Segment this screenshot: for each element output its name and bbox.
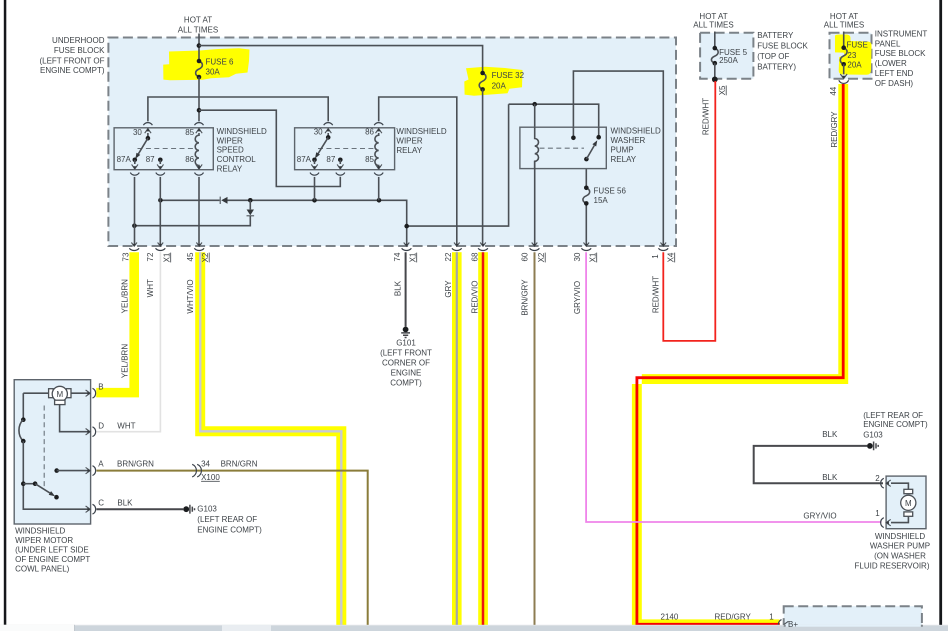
svg-text:GRY/VIO: GRY/VIO bbox=[803, 511, 836, 520]
relay1 pin 86 exit arrow bbox=[196, 164, 202, 169]
svg-text:WIPER: WIPER bbox=[396, 136, 422, 145]
svg-text:BRN/GRY: BRN/GRY bbox=[521, 279, 530, 316]
svg-text:WINDSHIELD: WINDSHIELD bbox=[15, 527, 65, 536]
svg-text:BATTERY: BATTERY bbox=[757, 31, 794, 40]
svg-text:FUSE 56: FUSE 56 bbox=[594, 186, 627, 195]
wire GRY core pin 22 to bottom bbox=[456, 252, 458, 626]
diode D1 on y200 line (cathode left) bbox=[219, 197, 221, 204]
svg-text:ENGINE COMPT): ENGINE COMPT) bbox=[197, 525, 262, 534]
svg-text:87A: 87A bbox=[117, 155, 132, 164]
washer relay switch contacts and blade bbox=[571, 136, 576, 141]
svg-text:X2: X2 bbox=[201, 252, 210, 262]
washer pump pin 1 arrow and arc bbox=[886, 519, 891, 525]
wire relay1 86 to pin 45 bbox=[198, 177, 200, 245]
wire RED/VIO core pin 68 to bottom bbox=[482, 252, 485, 626]
svg-text:RED/GRY: RED/GRY bbox=[715, 612, 752, 621]
svg-text:BLK: BLK bbox=[822, 430, 838, 439]
wire RED/GRY core trunk bbox=[637, 84, 843, 624]
relay2 pin 86 terminal arrow bbox=[376, 129, 382, 134]
svg-text:B+: B+ bbox=[788, 620, 798, 629]
wire fuse 32 to pin 68 bbox=[482, 89, 484, 245]
wire relay1 87A to pin 73 bbox=[134, 177, 136, 245]
relay2 bottom connector arcs bbox=[310, 173, 319, 176]
svg-text:FUSE BLOCK: FUSE BLOCK bbox=[54, 46, 105, 55]
svg-text:BLK: BLK bbox=[822, 473, 838, 482]
underhood border pin 60 arrow and arc bbox=[532, 243, 538, 247]
svg-text:FLUID RESERVOIR): FLUID RESERVOIR) bbox=[855, 561, 930, 570]
svg-text:C: C bbox=[98, 499, 104, 508]
wire fuse 6 to relay 1 pin 85 bbox=[198, 77, 200, 121]
svg-text:GRY/VIO: GRY/VIO bbox=[573, 281, 582, 314]
node y200 diode branch bbox=[248, 198, 253, 203]
svg-text:X1: X1 bbox=[588, 252, 597, 262]
svg-text:2: 2 bbox=[875, 474, 880, 483]
svg-text:WINDSHIELD: WINDSHIELD bbox=[875, 532, 925, 541]
wire BLK pin 74 to G101 bbox=[405, 252, 407, 327]
svg-text:BLK: BLK bbox=[117, 499, 133, 508]
svg-text:86: 86 bbox=[365, 128, 374, 137]
windshield washer pump relay U3 box bbox=[520, 127, 606, 168]
motor park switch pivot and blade bbox=[21, 481, 26, 486]
svg-text:B: B bbox=[98, 383, 103, 392]
relay1 coil 85-86 bbox=[195, 133, 199, 169]
svg-text:250A: 250A bbox=[719, 56, 738, 65]
svg-text:87: 87 bbox=[326, 155, 335, 164]
instrument fuse block feed wire bbox=[843, 32, 845, 48]
svg-text:FUSE 32: FUSE 32 bbox=[492, 71, 525, 80]
underhood border pin 72 arrow and arc bbox=[158, 243, 164, 247]
svg-text:OF ENGINE COMPT: OF ENGINE COMPT bbox=[15, 555, 90, 564]
washer pump motor symbol bbox=[891, 483, 908, 522]
svg-text:FUSE BLOCK: FUSE BLOCK bbox=[875, 49, 926, 58]
windshield wiper relay U2 box bbox=[295, 128, 395, 170]
relay2 pin 85 exit arrow bbox=[376, 164, 382, 169]
svg-text:BATTERY): BATTERY) bbox=[757, 62, 796, 71]
svg-text:CORNER OF: CORNER OF bbox=[382, 359, 430, 368]
svg-text:YEL/BRN: YEL/BRN bbox=[121, 279, 130, 313]
wire HOT AT ALL TIMES feed to fuse 6 bbox=[198, 34, 200, 62]
svg-text:FUSE: FUSE bbox=[847, 41, 868, 50]
svg-text:74: 74 bbox=[393, 252, 402, 261]
B+ connector entry arc and arrow bbox=[778, 620, 781, 630]
highlight band RED/GRY trunk from instrument fuse block to B+ bbox=[632, 84, 848, 629]
svg-text:YEL/BRN: YEL/BRN bbox=[120, 344, 129, 378]
svg-text:BRN/GRN: BRN/GRN bbox=[117, 460, 154, 469]
relay1 top connector arcs bbox=[143, 123, 152, 126]
relay2 dashed midline bbox=[318, 148, 377, 150]
highlight blob fuse 23 bbox=[835, 35, 872, 75]
svg-text:WHT: WHT bbox=[117, 422, 135, 431]
motor park switch contact A bbox=[54, 468, 59, 473]
relay1 pin 85 terminal arrow bbox=[196, 129, 202, 134]
svg-text:68: 68 bbox=[471, 252, 480, 261]
svg-text:RELAY: RELAY bbox=[396, 146, 422, 155]
svg-text:87A: 87A bbox=[297, 155, 312, 164]
svg-text:1: 1 bbox=[875, 509, 880, 518]
wire washer relay switch feed to pin 1 (y=71) bbox=[573, 71, 663, 245]
svg-text:ALL TIMES: ALL TIMES bbox=[178, 26, 218, 35]
highlight band YEL/BRN wire pin 73 to motor B bbox=[96, 252, 139, 397]
motor pin A exit arrow and arc bbox=[86, 467, 91, 473]
svg-text:1: 1 bbox=[769, 612, 774, 621]
wire washer coil to pin 60 bbox=[534, 161, 536, 245]
svg-text:30: 30 bbox=[133, 128, 142, 137]
wire network y200 relay1-87 to pin74 bbox=[160, 200, 406, 245]
wire GRY/VIO pin 30 to washer pump pin 1 bbox=[586, 252, 881, 522]
fuse 23 20A bbox=[840, 48, 847, 65]
svg-text:60: 60 bbox=[521, 252, 530, 261]
svg-text:G103: G103 bbox=[197, 505, 217, 514]
relay2 top connector arcs bbox=[324, 123, 333, 126]
underhood border pin 68 arrow and arc bbox=[480, 243, 486, 247]
windshield wiper speed control relay U1 box bbox=[114, 128, 213, 170]
wire junction y110 to windshield wiper relay pin 87 bbox=[199, 110, 340, 186]
battery fuse block box bbox=[700, 33, 753, 79]
svg-text:WINDSHIELD: WINDSHIELD bbox=[396, 127, 446, 136]
battery fuse block feed wire bbox=[714, 32, 716, 49]
relay1 switch blade 30 to 87A bbox=[146, 136, 151, 141]
wire RED/WHT pin 1 to battery fuse block bbox=[663, 81, 715, 341]
svg-text:1: 1 bbox=[651, 254, 660, 259]
wire y226 pin74 junction to washer coil riser bbox=[407, 104, 509, 226]
svg-text:GRY: GRY bbox=[444, 280, 453, 298]
wire fuse 5 to X5 node bbox=[714, 63, 716, 79]
svg-text:FUSE BLOCK: FUSE BLOCK bbox=[757, 41, 808, 50]
svg-text:FUSE 6: FUSE 6 bbox=[206, 57, 235, 66]
ground G101 bbox=[403, 327, 409, 333]
svg-text:RED/WHT: RED/WHT bbox=[651, 276, 660, 313]
highlight band GRY wire pin 22 bbox=[452, 252, 462, 626]
svg-text:73: 73 bbox=[122, 252, 131, 261]
motor pin D exit arrow and arc bbox=[86, 429, 91, 435]
underhood border pin 22 arrow and arc bbox=[454, 243, 460, 247]
washer relay internal risers bbox=[573, 127, 598, 138]
B+ box fill patch above bar bbox=[785, 625, 921, 627]
fuse 56 15A bbox=[583, 159, 590, 245]
svg-text:(UNDER LEFT SIDE: (UNDER LEFT SIDE bbox=[15, 546, 89, 555]
washer relay coil bbox=[535, 127, 539, 168]
svg-text:RED/GRY: RED/GRY bbox=[830, 111, 839, 148]
underhood fuse block box bbox=[108, 38, 676, 247]
relay1 bottom connector arcs bbox=[130, 173, 139, 176]
svg-text:WIPER MOTOR: WIPER MOTOR bbox=[15, 536, 73, 545]
svg-text:ALL TIMES: ALL TIMES bbox=[824, 21, 864, 30]
wire relay1 pin30 to relay2 pin30 (y=97) bbox=[148, 97, 328, 121]
svg-text:86: 86 bbox=[185, 155, 194, 164]
svg-text:WINDSHIELD: WINDSHIELD bbox=[611, 127, 661, 136]
svg-text:30: 30 bbox=[314, 128, 323, 137]
relay1 pin 87A exit arrow bbox=[134, 160, 136, 164]
svg-text:X2: X2 bbox=[537, 252, 546, 262]
washer pump pin 2 arrow and arc bbox=[886, 480, 891, 486]
wire y45 junction to fuse 32 bbox=[199, 46, 483, 73]
svg-text:23: 23 bbox=[847, 51, 856, 60]
highlight band WHT/VIO wire pin 45 bbox=[195, 252, 346, 626]
underhood border pin 74 arrow and arc bbox=[404, 243, 410, 247]
node pin74 junction y226 bbox=[404, 224, 409, 229]
highlight band RED/VIO wire pin 68 bbox=[478, 252, 488, 626]
relay2 switch blade 30 to 87A bbox=[326, 135, 331, 140]
svg-text:(LOWER: (LOWER bbox=[875, 59, 907, 68]
svg-text:PANEL: PANEL bbox=[875, 39, 901, 48]
svg-text:WHT/VIO: WHT/VIO bbox=[186, 279, 195, 313]
instrument panel fuse block box bbox=[830, 33, 872, 79]
svg-text:RELAY: RELAY bbox=[611, 155, 637, 164]
right page edge line bbox=[939, 0, 942, 626]
node y200 relay2-85 bbox=[377, 198, 382, 203]
svg-text:(LEFT FRONT OF: (LEFT FRONT OF bbox=[39, 56, 104, 65]
svg-text:WASHER: WASHER bbox=[611, 136, 646, 145]
node y200 relay2-87A bbox=[312, 198, 317, 203]
relay1 pin 87 contact and exit arrow bbox=[158, 158, 163, 163]
node y225.7 on relay1-87A wire bbox=[132, 223, 137, 228]
wire washer coil riser into box bbox=[534, 104, 536, 138]
svg-text:(ON WASHER: (ON WASHER bbox=[874, 552, 926, 561]
wire WHT/VIO core pin 45 to bottom bbox=[200, 252, 341, 626]
svg-text:G103: G103 bbox=[863, 430, 883, 439]
svg-text:COMPT): COMPT) bbox=[390, 378, 422, 387]
relay2 pin 30 terminal arrow bbox=[327, 133, 329, 137]
fuse 5 250A bbox=[711, 48, 718, 63]
svg-text:ENGINE: ENGINE bbox=[391, 369, 422, 378]
svg-text:X100: X100 bbox=[201, 473, 220, 482]
svg-text:WINDSHIELD: WINDSHIELD bbox=[217, 127, 267, 136]
svg-text:X1: X1 bbox=[162, 252, 171, 262]
wire relay2 85 to y200 bbox=[378, 177, 380, 200]
relay1 pin 30 terminal arrow bbox=[147, 133, 149, 138]
connector X100 arcs bbox=[192, 464, 196, 477]
motor linkage dashed line bbox=[43, 406, 45, 490]
highlight blob fuse 32 bbox=[464, 67, 522, 96]
relay1 dashed midline bbox=[138, 148, 197, 150]
svg-text:A: A bbox=[98, 460, 104, 469]
bottom scrollbar bar bbox=[0, 626, 948, 631]
wire BLK motor C to G103 bbox=[96, 508, 183, 510]
left page edge line bbox=[4, 0, 7, 626]
svg-text:RED/WHT: RED/WHT bbox=[701, 98, 710, 135]
svg-text:OF DASH): OF DASH) bbox=[875, 79, 914, 88]
svg-text:ALL TIMES: ALL TIMES bbox=[693, 21, 733, 30]
washer relay dashed midline bbox=[540, 147, 585, 149]
wire washer relay coil feed line (y=104.2) bbox=[509, 104, 599, 137]
svg-text:15A: 15A bbox=[594, 196, 609, 205]
relay2 coil 86-85 bbox=[375, 133, 379, 169]
svg-text:WASHER PUMP: WASHER PUMP bbox=[870, 542, 930, 551]
node y200 relay1-87 bbox=[158, 198, 163, 203]
wire BLK washer pump pin 2 to G103 bbox=[754, 446, 883, 483]
node X5 battery output bbox=[712, 77, 718, 83]
motor internal wire to pin D bbox=[60, 405, 88, 432]
svg-text:M: M bbox=[56, 390, 63, 399]
svg-text:LEFT END: LEFT END bbox=[875, 69, 914, 78]
fuse 6 30A bbox=[196, 61, 203, 77]
underhood border pin 45 arrow and arc bbox=[196, 243, 202, 247]
motor M1 symbol bbox=[23, 392, 87, 394]
svg-text:(LEFT REAR OF: (LEFT REAR OF bbox=[197, 515, 257, 524]
svg-text:X5: X5 bbox=[718, 85, 727, 95]
relay2 pin 87A exit arrow bbox=[314, 160, 316, 164]
diode D2 branch down from y200 to y225.7 bbox=[134, 200, 250, 225]
svg-text:22: 22 bbox=[444, 252, 453, 261]
svg-text:87: 87 bbox=[146, 155, 155, 164]
svg-text:INSTRUMENT: INSTRUMENT bbox=[875, 30, 928, 39]
svg-text:D: D bbox=[98, 422, 104, 431]
svg-text:(TOP OF: (TOP OF bbox=[757, 52, 789, 61]
node washer coil junction bbox=[532, 102, 537, 107]
node junction below HOT AT (y=45.6) bbox=[197, 43, 202, 48]
B+ connector box bbox=[784, 606, 922, 631]
svg-text:30A: 30A bbox=[206, 67, 221, 76]
svg-text:ENGINE COMPT): ENGINE COMPT) bbox=[863, 420, 928, 429]
svg-text:UNDERHOOD: UNDERHOOD bbox=[52, 36, 105, 45]
svg-text:HOT AT: HOT AT bbox=[184, 15, 212, 24]
underhood border pin 73 arrow and arc bbox=[131, 243, 137, 247]
svg-text:X1: X1 bbox=[408, 252, 417, 262]
ground G103 right bbox=[867, 443, 873, 449]
svg-text:SPEED: SPEED bbox=[217, 146, 244, 155]
fuse 32 20A bbox=[479, 73, 486, 89]
highlight blob fuse 6 bbox=[163, 48, 249, 80]
svg-text:G101: G101 bbox=[396, 338, 416, 347]
svg-text:M: M bbox=[905, 499, 912, 508]
motor pin B exit arrow and arc bbox=[86, 390, 91, 396]
svg-text:2140: 2140 bbox=[661, 612, 679, 621]
svg-text:COWL PANEL): COWL PANEL) bbox=[15, 565, 70, 574]
svg-text:85: 85 bbox=[185, 128, 194, 137]
svg-text:X4: X4 bbox=[666, 252, 675, 262]
svg-text:ENGINE COMPT): ENGINE COMPT) bbox=[40, 66, 105, 75]
svg-text:85: 85 bbox=[365, 155, 374, 164]
svg-text:30: 30 bbox=[573, 252, 582, 261]
svg-text:(LEFT FRONT: (LEFT FRONT bbox=[380, 349, 432, 358]
svg-text:BRN/GRN: BRN/GRN bbox=[221, 459, 258, 468]
svg-text:45: 45 bbox=[186, 252, 195, 261]
svg-text:20A: 20A bbox=[847, 60, 862, 69]
motor park switch left wire with cam arc bbox=[22, 393, 24, 420]
underhood border pin 1 arrow and arc bbox=[661, 243, 667, 247]
ground G103 left bbox=[183, 506, 189, 512]
wire BRN/GRN motor A to X100 and bottom bbox=[96, 471, 367, 626]
instrument fuse block pin 44 arrow and arc bbox=[843, 64, 845, 74]
underhood border pin 30 arrow and arc bbox=[584, 243, 590, 247]
svg-text:44: 44 bbox=[829, 86, 838, 95]
svg-text:34: 34 bbox=[201, 459, 210, 468]
svg-text:BLK: BLK bbox=[393, 280, 402, 296]
svg-text:PUMP: PUMP bbox=[611, 146, 634, 155]
svg-text:(LEFT REAR OF: (LEFT REAR OF bbox=[863, 411, 923, 420]
wire relay1 87 to pin 72 bbox=[159, 177, 161, 245]
windshield washer pump box bbox=[886, 476, 926, 529]
motor pin C exit arrow and arc bbox=[86, 506, 91, 512]
wire relay2 87A to y200 bbox=[314, 177, 316, 200]
wire relay2 pin86 to pin 22 GRY (y=97) bbox=[379, 97, 457, 245]
wire BRN/GRY pin 60 to bottom bbox=[534, 252, 536, 626]
svg-text:CONTROL: CONTROL bbox=[217, 155, 257, 164]
svg-text:RELAY: RELAY bbox=[217, 165, 243, 174]
node junction fuse6 output y110 bbox=[197, 108, 202, 113]
svg-text:RED/VIO: RED/VIO bbox=[471, 281, 480, 314]
svg-text:72: 72 bbox=[146, 252, 155, 261]
relay2 pin 87 contact and exit arrow bbox=[338, 158, 343, 163]
windshield wiper motor box bbox=[14, 380, 90, 524]
svg-text:WHT: WHT bbox=[146, 279, 155, 297]
wire WHT pin 72 to motor D bbox=[96, 252, 160, 432]
svg-text:20A: 20A bbox=[492, 81, 507, 90]
svg-text:WIPER: WIPER bbox=[217, 136, 243, 145]
